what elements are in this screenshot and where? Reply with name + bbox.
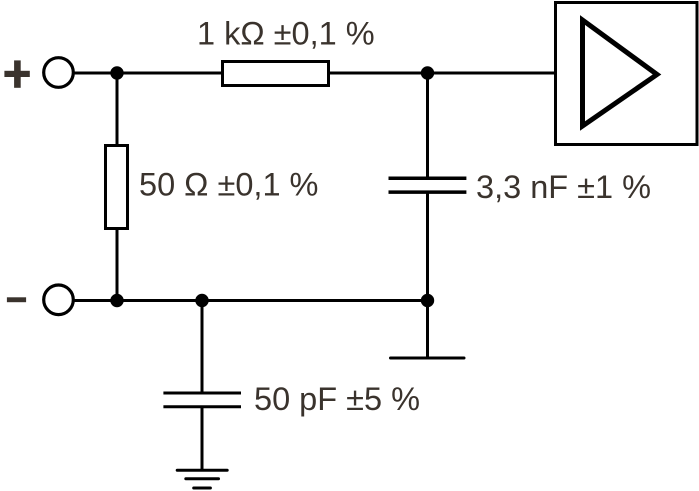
svg-text:3,3 nF ±1 %: 3,3 nF ±1 % — [476, 169, 651, 205]
svg-text:1 kΩ ±0,1 %: 1 kΩ ±0,1 % — [197, 16, 375, 52]
svg-text:50 pF ±5 %: 50 pF ±5 % — [254, 381, 420, 417]
svg-text:50 Ω ±0,1 %: 50 Ω ±0,1 % — [139, 167, 318, 203]
